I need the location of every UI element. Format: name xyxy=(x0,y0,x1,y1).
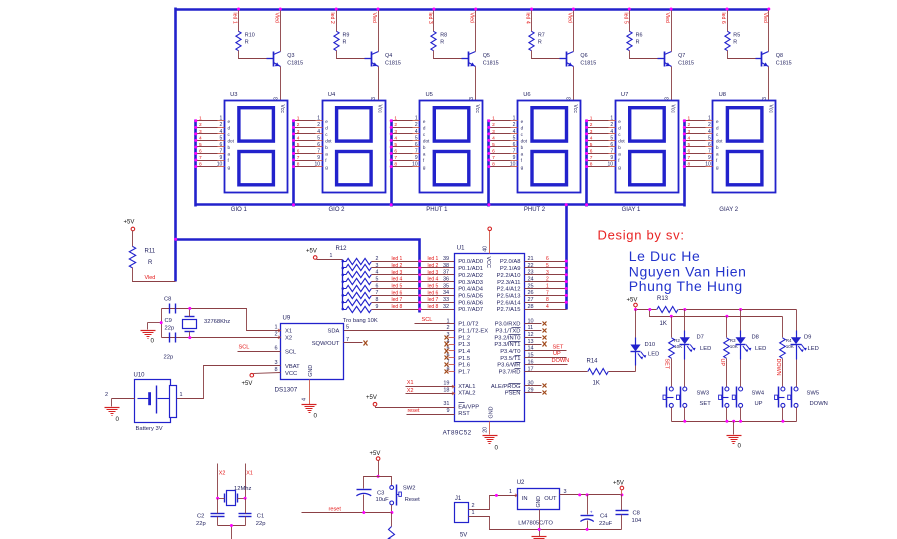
svg-text:led 7: led 7 xyxy=(392,297,403,303)
svg-text:g: g xyxy=(228,165,231,170)
svg-text:P2.7/A15: P2.7/A15 xyxy=(497,307,521,313)
svg-text:6: 6 xyxy=(610,142,613,148)
svg-text:2: 2 xyxy=(376,256,379,262)
svg-text:a: a xyxy=(716,152,719,157)
svg-text:X2: X2 xyxy=(407,388,414,394)
svg-text:b: b xyxy=(325,145,328,150)
svg-text:g: g xyxy=(521,165,524,170)
svg-text:P0.1/AD1: P0.1/AD1 xyxy=(458,266,483,272)
7-segment display U3 xyxy=(225,101,288,193)
svg-text:+5V: +5V xyxy=(366,395,377,401)
svg-text:8: 8 xyxy=(688,161,691,167)
svg-text:22uF: 22uF xyxy=(599,521,613,527)
node bus entry xyxy=(292,139,295,142)
resistor R10 xyxy=(236,31,241,50)
svg-text:led 5: led 5 xyxy=(392,284,403,290)
svg-text:SW4: SW4 xyxy=(752,391,765,397)
svg-text:dot: dot xyxy=(228,139,235,144)
svg-text:Vcc: Vcc xyxy=(279,105,285,114)
wire U4 pin 6 (b) xyxy=(294,146,316,148)
svg-text:d: d xyxy=(716,126,719,131)
capacitor C1 xyxy=(239,513,252,515)
svg-text:XTAL2: XTAL2 xyxy=(458,391,475,397)
svg-text:4: 4 xyxy=(199,135,202,141)
svg-text:b: b xyxy=(716,145,719,150)
svg-text:0: 0 xyxy=(314,413,318,420)
node bus entry xyxy=(194,119,197,122)
svg-text:SCL: SCL xyxy=(422,317,433,323)
svg-text:Vcc: Vcc xyxy=(767,105,773,114)
wire display segment bus (bottom horizontal) xyxy=(196,203,685,206)
svg-text:PHUT 1: PHUT 1 xyxy=(426,207,448,213)
svg-text:SCL: SCL xyxy=(285,349,297,355)
svg-text:35: 35 xyxy=(443,283,449,289)
ground (U1) xyxy=(483,435,498,437)
wire led 5 to U1 P0.4 xyxy=(372,288,455,290)
svg-text:UP: UP xyxy=(719,359,725,367)
svg-text:e: e xyxy=(325,119,328,124)
svg-text:2: 2 xyxy=(513,122,516,128)
wire X2 crystal loop xyxy=(162,337,281,339)
svg-text:P1.0/T2: P1.0/T2 xyxy=(458,322,478,328)
node bus entry xyxy=(683,119,686,122)
wire led 4 to U1 P0.3 xyxy=(372,281,455,283)
svg-text:C1815: C1815 xyxy=(483,60,499,66)
voltage regulator U2 LM7805C/TO xyxy=(518,489,560,510)
svg-text:10: 10 xyxy=(510,161,516,167)
svg-text:g: g xyxy=(325,165,328,170)
wire U6 pin 10 (g) xyxy=(489,166,511,168)
node bus entry xyxy=(292,152,295,155)
svg-text:4: 4 xyxy=(513,129,516,135)
resistor R2 10K pullup xyxy=(671,317,673,338)
svg-text:PHUT 2: PHUT 2 xyxy=(524,207,546,213)
svg-text:3: 3 xyxy=(762,97,768,100)
wire U4 pin 4 (c) xyxy=(294,133,316,135)
wire SW2 down to resistor xyxy=(391,513,393,527)
svg-text:3: 3 xyxy=(567,97,573,100)
wire U5 pin 9 (f) xyxy=(392,160,413,162)
wire U4 pin 5 (dot) xyxy=(294,140,316,142)
node bus entry xyxy=(390,165,393,168)
wire U8 pin 6 (b) xyxy=(685,146,706,148)
svg-text:C3: C3 xyxy=(377,491,384,497)
svg-text:AT89C52: AT89C52 xyxy=(443,430,472,437)
switch SW3 (SET) xyxy=(666,387,668,408)
wire U7 pin 7 (a) xyxy=(587,153,609,155)
svg-text:P0.5/AD5: P0.5/AD5 xyxy=(458,293,483,299)
wire U1 P1.5 stub xyxy=(449,357,455,359)
svg-text:Q4: Q4 xyxy=(385,53,392,59)
svg-text:GND: GND xyxy=(489,406,495,418)
wire U1 pin17 to R14 xyxy=(525,371,588,373)
svg-text:C4: C4 xyxy=(600,514,608,520)
svg-text:2: 2 xyxy=(105,392,108,398)
svg-text:3: 3 xyxy=(546,270,549,276)
node bus entry xyxy=(565,301,568,304)
svg-text:3: 3 xyxy=(688,129,691,135)
svg-text:+5V: +5V xyxy=(627,298,638,304)
svg-text:R8: R8 xyxy=(440,33,447,39)
wire led 8 to U1 P0.7 xyxy=(372,309,455,311)
wire led4 base drop xyxy=(531,10,533,32)
LED D10 column xyxy=(635,310,637,338)
wire Vled Q6 collector xyxy=(573,10,575,52)
svg-text:R: R xyxy=(733,40,737,46)
svg-text:+5V: +5V xyxy=(613,481,624,487)
svg-text:1K: 1K xyxy=(660,321,667,327)
wire SW5 to ground rail xyxy=(782,408,784,422)
no-connect xyxy=(364,341,368,346)
wire U6 pin 9 (f) xyxy=(489,160,511,162)
wire U7 pin 4 (c) xyxy=(587,133,609,135)
svg-text:6: 6 xyxy=(199,148,202,154)
svg-text:led 3: led 3 xyxy=(392,270,403,276)
svg-text:4: 4 xyxy=(590,135,593,141)
no-connect xyxy=(445,363,449,367)
crystal Y1 32768Khz xyxy=(183,320,197,329)
svg-text:EA/VPP: EA/VPP xyxy=(458,404,479,410)
svg-text:SET: SET xyxy=(663,359,669,370)
wire U3 pin 5 (dot) xyxy=(196,140,218,142)
svg-text:P1.5: P1.5 xyxy=(458,356,470,362)
switch SW4 (UP) xyxy=(722,387,724,408)
svg-text:e: e xyxy=(521,119,524,124)
svg-text:D7: D7 xyxy=(697,334,704,340)
svg-text:4: 4 xyxy=(317,129,320,135)
node xyxy=(362,511,365,514)
svg-text:1: 1 xyxy=(492,116,495,122)
svg-text:Vled: Vled xyxy=(566,13,572,23)
node bus entry xyxy=(585,132,588,135)
node bus entry xyxy=(194,126,197,129)
wire SW3 to ground rail xyxy=(671,408,673,422)
wire +5V to U9 VCC xyxy=(254,373,281,374)
node bus entry xyxy=(565,273,568,276)
svg-text:U4: U4 xyxy=(328,92,336,98)
node bus entry xyxy=(487,126,490,129)
node bus entry xyxy=(585,159,588,162)
wire U1 P1.0 SCL xyxy=(415,323,455,325)
svg-text:Q7: Q7 xyxy=(678,53,685,59)
svg-text:P3.2/INT0: P3.2/INT0 xyxy=(494,335,520,341)
transistor Q6 xyxy=(560,58,567,60)
svg-text:4: 4 xyxy=(297,135,300,141)
wire U7 pin 9 (f) xyxy=(587,160,609,162)
svg-text:8: 8 xyxy=(274,367,277,373)
svg-text:DOWN: DOWN xyxy=(552,358,570,364)
svg-text:SW5: SW5 xyxy=(807,391,820,397)
wire SW4 to ground rail xyxy=(726,408,728,422)
wire main led bus (left vertical) xyxy=(174,8,177,282)
wire U3 pin 6 (b) xyxy=(196,146,218,148)
no-connect xyxy=(543,384,547,388)
svg-text:10: 10 xyxy=(412,161,418,167)
wire to C3 xyxy=(364,477,379,489)
svg-text:P3.7/RD: P3.7/RD xyxy=(499,370,521,376)
wire U1 P2.6 to bus xyxy=(525,302,567,304)
svg-text:P3.3/INT1: P3.3/INT1 xyxy=(494,342,520,348)
svg-text:a: a xyxy=(325,152,328,157)
wire U8 pin 4 (c) xyxy=(685,133,706,135)
transistor Q7 xyxy=(658,58,665,60)
wire X2 column xyxy=(217,464,219,499)
svg-text:P0.0/AD0: P0.0/AD0 xyxy=(458,259,483,265)
svg-text:b: b xyxy=(521,145,524,150)
svg-text:R14: R14 xyxy=(587,359,599,365)
node bus entry xyxy=(292,159,295,162)
wire R13 to LED anodes rail xyxy=(679,309,797,311)
svg-text:g: g xyxy=(423,165,426,170)
wire U6 pin 5 (dot) xyxy=(489,140,511,142)
svg-text:Q3: Q3 xyxy=(287,53,294,59)
svg-text:10: 10 xyxy=(314,161,320,167)
node bus entry xyxy=(194,165,197,168)
svg-text:Vcc: Vcc xyxy=(474,105,480,114)
svg-text:3: 3 xyxy=(394,129,397,135)
wire U1 P2.3 to bus xyxy=(525,281,567,283)
crystal Y2 12Mhz xyxy=(227,491,236,506)
svg-text:1: 1 xyxy=(394,116,397,122)
capacitor C3 10uF xyxy=(357,489,372,491)
svg-text:Vcc: Vcc xyxy=(377,105,383,114)
wire U1 P2.7 to bus xyxy=(525,309,567,311)
svg-text:GIO 2: GIO 2 xyxy=(329,207,346,213)
wire SW2 to reset rail xyxy=(391,505,393,513)
svg-text:4: 4 xyxy=(302,398,308,401)
wire +5V to reset node xyxy=(378,461,380,477)
svg-text:7: 7 xyxy=(492,155,495,161)
svg-text:4: 4 xyxy=(708,129,711,135)
svg-text:36: 36 xyxy=(443,276,449,282)
svg-text:34: 34 xyxy=(443,290,449,296)
wire Vled Q3 collector xyxy=(280,10,282,52)
node bus entry xyxy=(487,165,490,168)
svg-text:0: 0 xyxy=(495,445,499,452)
svg-text:U9: U9 xyxy=(283,316,291,322)
node bus entry xyxy=(585,152,588,155)
resistor R8 xyxy=(431,31,436,50)
wire U1 VCC to +5V xyxy=(489,231,491,254)
node bus entry xyxy=(390,159,393,162)
svg-text:UP: UP xyxy=(755,401,763,407)
svg-text:U7: U7 xyxy=(621,92,628,98)
svg-text:P1.1/T2-EX: P1.1/T2-EX xyxy=(458,328,488,334)
wire U7 pin 10 (g) xyxy=(587,166,609,168)
svg-text:1: 1 xyxy=(590,116,593,122)
svg-text:P0.3/AD3: P0.3/AD3 xyxy=(458,280,483,286)
no-connect xyxy=(445,370,449,374)
svg-text:X1: X1 xyxy=(285,329,292,335)
svg-text:d: d xyxy=(618,126,621,131)
wire U1 P1.6 stub xyxy=(449,364,455,366)
svg-text:10: 10 xyxy=(608,161,614,167)
svg-text:7: 7 xyxy=(317,148,320,154)
wire U1 pin12 stub xyxy=(525,337,542,339)
7-segment display U7 xyxy=(616,101,679,193)
svg-text:led 2: led 2 xyxy=(392,263,403,269)
resistor R13 xyxy=(657,307,678,313)
svg-text:Vled: Vled xyxy=(145,275,156,281)
node bus entry xyxy=(585,145,588,148)
svg-text:X1: X1 xyxy=(246,471,253,477)
svg-text:Vled: Vled xyxy=(273,13,279,23)
wire SCL stub (U9) xyxy=(238,351,281,353)
svg-text:a: a xyxy=(521,152,524,157)
node Vled xyxy=(670,8,673,11)
svg-text:2: 2 xyxy=(688,122,691,128)
no-connect xyxy=(543,391,547,395)
svg-text:3: 3 xyxy=(590,129,593,135)
wire D10 cathode to R14 net xyxy=(635,366,637,372)
node xyxy=(586,493,589,496)
svg-text:7: 7 xyxy=(688,155,691,161)
svg-text:R: R xyxy=(245,40,249,46)
wire Vled Q4 collector xyxy=(378,10,380,52)
wire U3 pin 4 (c) xyxy=(196,133,218,135)
svg-text:dot: dot xyxy=(325,139,332,144)
svg-text:2: 2 xyxy=(590,122,593,128)
node bus entry xyxy=(487,132,490,135)
wire U8 pin 5 (dot) xyxy=(685,140,706,142)
svg-text:3: 3 xyxy=(492,129,495,135)
wire Vled Q5 collector xyxy=(475,10,477,52)
svg-text:8: 8 xyxy=(546,297,549,303)
svg-text:led 7: led 7 xyxy=(428,297,439,303)
svg-text:31: 31 xyxy=(443,401,449,407)
svg-text:LED: LED xyxy=(808,346,819,352)
svg-text:6: 6 xyxy=(590,148,593,154)
wire U1 P1.2 stub xyxy=(449,337,455,339)
svg-text:22p: 22p xyxy=(196,521,206,527)
svg-text:P2.0/A8: P2.0/A8 xyxy=(500,259,521,265)
svg-text:U3: U3 xyxy=(230,92,237,98)
svg-text:GIAY 2: GIAY 2 xyxy=(719,207,738,213)
wire U1 pin14 SET xyxy=(525,350,567,352)
wire U1 P2.0 to bus xyxy=(525,261,567,263)
svg-text:b: b xyxy=(228,145,231,150)
svg-text:3: 3 xyxy=(564,489,567,495)
svg-text:dot: dot xyxy=(618,139,625,144)
wire U7 pin 5 (dot) xyxy=(587,140,609,142)
svg-text:9: 9 xyxy=(220,155,223,161)
node led bus entry xyxy=(418,266,421,269)
svg-text:5: 5 xyxy=(708,135,711,141)
svg-text:U8: U8 xyxy=(719,92,726,98)
node bus entry xyxy=(487,119,490,122)
svg-text:P2.6/A14: P2.6/A14 xyxy=(497,300,522,306)
svg-text:7: 7 xyxy=(708,148,711,154)
svg-text:DS1307: DS1307 xyxy=(275,387,298,394)
svg-text:dot: dot xyxy=(423,139,430,144)
node bus entry xyxy=(487,152,490,155)
wire +5V rail upper xyxy=(635,307,637,310)
resistor R6 xyxy=(627,31,632,50)
transistor Q4 xyxy=(365,58,372,60)
svg-text:7: 7 xyxy=(415,148,418,154)
wire D7 cathode to switch xyxy=(684,360,686,388)
wire reset rail xyxy=(302,512,392,514)
svg-text:C8: C8 xyxy=(164,297,171,303)
wire U8 pin 9 (f) xyxy=(685,160,706,162)
LED D7 xyxy=(684,331,686,338)
svg-text:R13: R13 xyxy=(657,296,669,302)
svg-text:2: 2 xyxy=(415,122,418,128)
svg-text:7: 7 xyxy=(610,148,613,154)
wire crystal left to ground xyxy=(161,309,163,338)
node bus entry xyxy=(585,126,588,129)
svg-text:+5V: +5V xyxy=(370,451,381,457)
node Vled xyxy=(377,8,380,11)
svg-text:1: 1 xyxy=(297,116,300,122)
svg-text:R5: R5 xyxy=(733,33,740,39)
wire U8 pin 2 (d) xyxy=(685,127,706,129)
svg-text:0: 0 xyxy=(151,338,155,345)
switch SW5 (DOWN) xyxy=(778,387,780,408)
svg-text:SW2: SW2 xyxy=(403,486,416,492)
svg-text:R11: R11 xyxy=(145,249,156,255)
svg-text:1: 1 xyxy=(688,116,691,122)
svg-text:Vled: Vled xyxy=(664,13,670,23)
svg-text:LM7805C/TO: LM7805C/TO xyxy=(518,521,553,527)
svg-text:21: 21 xyxy=(528,256,534,262)
svg-text:X2: X2 xyxy=(219,471,226,477)
svg-text:6: 6 xyxy=(708,142,711,148)
svg-text:P2.4/A12: P2.4/A12 xyxy=(497,287,521,293)
node bus entry xyxy=(683,159,686,162)
node led 1 xyxy=(237,8,240,11)
svg-text:5: 5 xyxy=(297,142,300,148)
svg-text:SW3: SW3 xyxy=(697,391,710,397)
node pullup rail xyxy=(670,315,673,318)
node bus entry xyxy=(683,126,686,129)
wire U5 pin 6 (b) xyxy=(392,146,413,148)
wire J1 pin1 to ground rail xyxy=(469,517,622,530)
svg-text:P0.4/AD4: P0.4/AD4 xyxy=(458,287,484,293)
wire U7 pin 1 (e) xyxy=(587,120,609,122)
resistor R3 10K pullup xyxy=(726,317,728,338)
svg-text:8: 8 xyxy=(199,161,202,167)
svg-text:LED: LED xyxy=(755,346,766,352)
no-connect xyxy=(445,349,449,354)
svg-text:led 1: led 1 xyxy=(232,13,238,24)
svg-text:led 6: led 6 xyxy=(428,290,439,296)
svg-text:Vled: Vled xyxy=(469,13,475,23)
svg-text:Le Duc He: Le Duc He xyxy=(629,248,701,264)
node bus entry xyxy=(683,132,686,135)
svg-text:U6: U6 xyxy=(523,92,530,98)
wire display U4 pin bus (vertical) xyxy=(292,120,295,207)
wire D9 cathode to switch xyxy=(796,360,798,388)
svg-text:J1: J1 xyxy=(455,496,462,502)
wire U1 pin13 stub xyxy=(525,344,542,346)
svg-text:2: 2 xyxy=(274,332,277,338)
wire U1 P1.3 stub xyxy=(449,344,455,346)
svg-text:0: 0 xyxy=(116,416,120,423)
node led bus entry xyxy=(418,260,421,263)
svg-text:10: 10 xyxy=(217,161,223,167)
svg-text:2: 2 xyxy=(546,277,549,283)
svg-text:D8: D8 xyxy=(752,334,759,340)
svg-text:2: 2 xyxy=(610,122,613,128)
wire U6 pin 6 (b) xyxy=(489,146,511,148)
svg-text:3: 3 xyxy=(274,97,280,100)
svg-text:R3: R3 xyxy=(730,338,736,343)
node led bus entry xyxy=(418,294,421,297)
wire led 7 to U1 P0.6 xyxy=(372,302,455,304)
svg-text:5: 5 xyxy=(688,142,691,148)
wire U5 Vcc pin 3 xyxy=(475,100,477,102)
